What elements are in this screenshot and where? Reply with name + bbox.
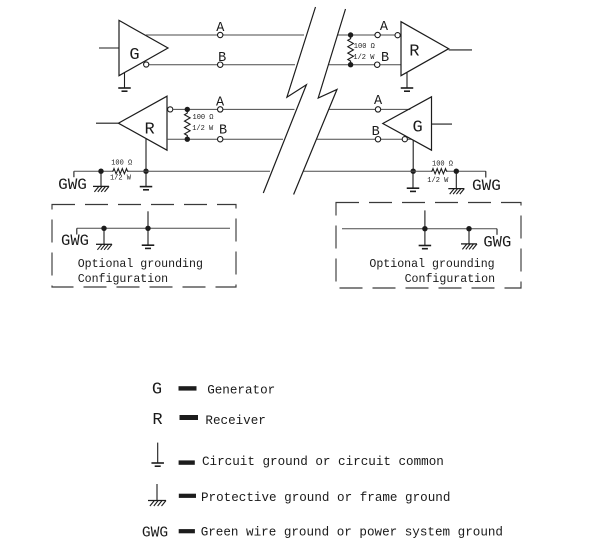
legend protective ground symbol — [148, 484, 166, 506]
legend dash (generator) — [179, 386, 197, 390]
junction on B at R1 termination — [348, 62, 353, 67]
net label GWG (right) — [472, 177, 501, 195]
svg-text:R: R — [409, 42, 419, 61]
value label 1/2 W (row2) — [192, 125, 214, 133]
node B (row2 right terminal) — [375, 137, 380, 142]
legend text Generator — [207, 384, 275, 398]
circuit ground (left box) — [142, 228, 155, 248]
node A (row2 right terminal) — [375, 107, 380, 112]
inversion bubble on R2 input A — [168, 107, 173, 112]
legend symbol G — [152, 380, 162, 399]
junction GWG right at protective ground — [454, 169, 459, 174]
svg-text:Configuration: Configuration — [405, 273, 495, 286]
cable break mark (left line) — [263, 7, 315, 193]
svg-text:GWG: GWG — [483, 233, 511, 251]
node A (row1 left terminal) — [218, 32, 223, 37]
svg-text:B: B — [219, 123, 227, 138]
node B (row1 left terminal) — [218, 62, 223, 67]
label A (row2 right) — [374, 94, 383, 109]
text configuration (right box) — [405, 273, 495, 286]
circuit ground at R1 — [401, 73, 414, 92]
svg-text:A: A — [380, 20, 389, 35]
dashed box: optional grounding configuration (left) — [52, 205, 236, 288]
op-amp generator G1 — [119, 20, 168, 75]
svg-text:GWG: GWG — [472, 177, 501, 195]
wire GWG right segment 2 — [448, 170, 486, 172]
label B (row2 left) — [219, 123, 227, 138]
value label 1/2 W (row1) — [353, 54, 375, 62]
value label 100 ohm (left GWG) — [111, 159, 132, 167]
node B (row2 left terminal) — [218, 137, 223, 142]
wire A (row2 right of break) — [329, 108, 410, 110]
node A (row1 right terminal) — [375, 32, 380, 37]
svg-text:GWG: GWG — [142, 526, 168, 542]
wire A (row1 right of break) — [338, 34, 401, 36]
svg-text:Optional grounding: Optional grounding — [369, 258, 494, 271]
wire GWG stub (left) — [73, 171, 75, 177]
junction (left box protective ground) — [101, 226, 106, 231]
resistor 100 ohm 1/2 W (left GWG) — [112, 169, 129, 174]
svg-text:1/2 W: 1/2 W — [192, 125, 214, 133]
label B (row1 left) — [218, 51, 226, 66]
wire R2 ground drop — [145, 139, 147, 172]
label A (row1 right) — [380, 20, 389, 35]
wire R1 output — [449, 49, 472, 51]
svg-text:R: R — [144, 121, 154, 140]
value label 100 ohm (row2) — [193, 114, 214, 122]
wire B (row2 right of break) — [317, 138, 412, 140]
value label 1/2 W (right GWG) — [427, 177, 449, 185]
legend text Receiver — [205, 414, 265, 428]
label B (row1 right) — [381, 51, 389, 66]
svg-text:100 Ω: 100 Ω — [354, 43, 375, 51]
legend dash (receiver) — [180, 415, 199, 420]
svg-text:G: G — [412, 119, 422, 138]
legend symbol R — [152, 411, 162, 430]
legend text GWG — [201, 526, 503, 540]
resistor 100 ohm 1/2 W (right GWG) — [431, 169, 448, 174]
svg-text:A: A — [216, 96, 225, 111]
junction (right box protective ground) — [466, 226, 471, 231]
label B (row2 right) — [372, 125, 380, 140]
circuit ground (right box) — [419, 229, 432, 249]
wire (right box GWG run) — [342, 228, 497, 230]
circuit ground at G2 — [407, 171, 420, 191]
wire stub up (left box circuit ground) — [147, 211, 149, 228]
protective ground (left box) — [96, 228, 112, 250]
label A (row2 left) — [216, 96, 225, 111]
text optional grounding (right box) — [369, 258, 494, 271]
svg-text:Generator: Generator — [207, 384, 275, 398]
inversion bubble on G1 output B — [144, 62, 149, 67]
svg-text:B: B — [381, 51, 389, 66]
resistor 100 ohm 1/2 W (row2 termination) — [185, 112, 191, 137]
svg-text:Circuit ground or circuit comm: Circuit ground or circuit common — [202, 455, 444, 469]
op-amp generator G2 — [383, 97, 432, 150]
wire A (row2 left of break) — [173, 108, 295, 110]
wire stub (right box GWG) — [496, 229, 498, 235]
value label 1/2 W (left GWG) — [110, 175, 132, 183]
node B (row1 right terminal) — [375, 62, 380, 67]
junction on B at R2 termination — [185, 137, 190, 142]
protective ground (left GWG) — [93, 171, 109, 192]
svg-text:100 Ω: 100 Ω — [432, 161, 453, 169]
node A (row2 left terminal) — [218, 107, 223, 112]
svg-text:G: G — [152, 380, 162, 399]
wire A (row1 left of break) — [146, 34, 304, 36]
legend symbol GWG — [142, 526, 168, 542]
svg-text:Green wire ground or power sys: Green wire ground or power system ground — [201, 526, 503, 540]
svg-text:1/2 W: 1/2 W — [110, 175, 132, 183]
circuit ground at G1 — [118, 73, 131, 91]
circuit ground at R2 — [140, 171, 153, 190]
svg-text:Protective ground or frame gro: Protective ground or frame ground — [201, 491, 450, 505]
junction R2 ground to GWG wire — [143, 169, 148, 174]
svg-text:A: A — [216, 21, 225, 36]
wire G2 input (to right) — [432, 123, 453, 125]
junction (left box circuit ground) — [145, 226, 150, 231]
value label 100 ohm (row1) — [354, 43, 375, 51]
net label GWG (left box) — [61, 232, 89, 250]
wire stub up (right box circuit ground) — [424, 210, 426, 228]
svg-text:B: B — [372, 125, 380, 140]
wire G2 ground drop — [412, 140, 414, 171]
wire GWG right segment 1 — [304, 170, 431, 172]
junction on A at R2 termination — [185, 107, 190, 112]
legend circuit ground symbol — [151, 443, 164, 467]
protective ground (right box) — [461, 229, 477, 250]
svg-text:R: R — [152, 411, 162, 430]
inversion bubble on G2 input B — [402, 137, 407, 142]
wire B (row2 left of break) — [167, 138, 283, 140]
resistor 100 ohm 1/2 W (row1 termination) — [348, 37, 354, 62]
svg-text:A: A — [374, 94, 383, 109]
svg-text:100 Ω: 100 Ω — [111, 159, 132, 167]
net label GWG (left) — [58, 176, 87, 194]
svg-text:G: G — [129, 46, 139, 65]
op-amp receiver R1 — [401, 22, 449, 76]
legend text circuit ground — [202, 455, 444, 469]
wire G1 input — [99, 47, 119, 49]
svg-text:GWG: GWG — [61, 232, 89, 250]
text optional grounding (left box) — [78, 258, 203, 271]
label A (row1 left) — [216, 21, 225, 36]
svg-text:1/2 W: 1/2 W — [427, 177, 449, 185]
legend text protective ground — [201, 491, 450, 505]
svg-text:B: B — [218, 51, 226, 66]
cable break mark (right line) — [294, 9, 346, 195]
wire B (row1 left of break) — [146, 64, 295, 66]
junction GWG left at protective ground — [98, 169, 103, 174]
op-amp receiver R2 — [118, 96, 167, 150]
wire R2 output (to left) — [96, 122, 118, 124]
svg-text:Optional grounding: Optional grounding — [78, 258, 203, 271]
junction G2 ground to GWG wire — [411, 169, 416, 174]
junction on A at R1 termination — [348, 32, 353, 37]
protective ground (right GWG) — [448, 171, 464, 194]
svg-text:100 Ω: 100 Ω — [193, 114, 214, 122]
inversion bubble on R1 input A — [395, 33, 400, 38]
wire B (row1 right of break) — [329, 64, 401, 66]
svg-text:Receiver: Receiver — [205, 414, 265, 428]
text configuration (left box) — [78, 273, 168, 286]
junction (right box circuit ground) — [422, 226, 427, 231]
value label 100 ohm (right GWG) — [432, 161, 453, 169]
wire GWG left segment 1 — [74, 170, 112, 172]
dashed box: optional grounding configuration (right) — [336, 203, 521, 289]
wire GWG stub (right) — [485, 171, 487, 177]
svg-text:Configuration: Configuration — [78, 273, 168, 286]
wire GWG left segment 2 — [129, 170, 271, 172]
net label GWG (right box) — [483, 233, 511, 251]
svg-text:GWG: GWG — [58, 176, 87, 194]
legend dash (GWG) — [179, 529, 195, 533]
legend dash (protective ground) — [179, 494, 196, 498]
legend dash (circuit ground) — [179, 460, 195, 464]
svg-text:1/2 W: 1/2 W — [353, 54, 375, 62]
wire (left box GWG run) — [77, 227, 230, 229]
wire stub (left box GWG) — [76, 228, 78, 234]
